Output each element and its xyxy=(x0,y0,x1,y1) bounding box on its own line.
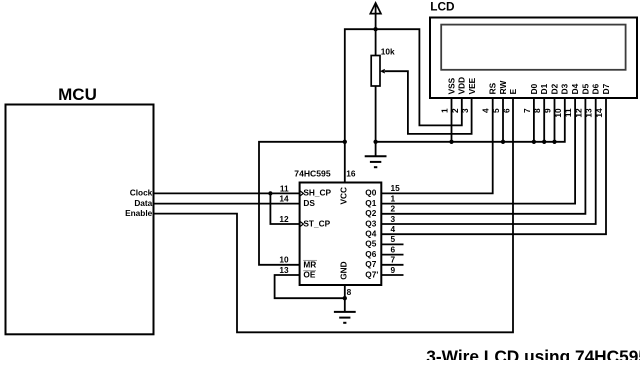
svg-text:D0: D0 xyxy=(529,83,539,94)
svg-text:RS: RS xyxy=(488,82,498,94)
svg-text:Q7: Q7 xyxy=(365,259,376,269)
op 74HC595 U1 box xyxy=(300,183,382,286)
svg-text:D5: D5 xyxy=(580,83,590,94)
svg-text:6: 6 xyxy=(501,108,511,113)
wire Q2 to D5 xyxy=(381,98,585,214)
svg-text:3-Wire LCD using 74HC595: 3-Wire LCD using 74HC595 xyxy=(426,347,640,361)
svg-text:2: 2 xyxy=(450,108,460,113)
svg-text:10k: 10k xyxy=(381,47,395,57)
svg-text:8: 8 xyxy=(532,108,542,113)
wire clock branch to ST_CP xyxy=(270,193,299,224)
wire OE to GND xyxy=(275,275,345,298)
wiper arrowhead xyxy=(380,69,385,74)
svg-text:3: 3 xyxy=(460,108,470,113)
svg-text:D3: D3 xyxy=(560,83,570,94)
svg-text:E: E xyxy=(508,88,518,94)
svg-text:10: 10 xyxy=(279,255,289,265)
junction D2 xyxy=(552,140,556,144)
svg-text:5: 5 xyxy=(391,234,396,244)
svg-text:VDD: VDD xyxy=(457,77,467,95)
svg-text:Q6: Q6 xyxy=(365,249,376,259)
svg-text:D2: D2 xyxy=(549,83,559,94)
svg-text:6: 6 xyxy=(391,244,396,254)
svg-text:5: 5 xyxy=(491,108,501,113)
svg-text:4: 4 xyxy=(481,108,491,113)
svg-text:RW: RW xyxy=(498,81,508,95)
svg-text:D1: D1 xyxy=(539,83,549,94)
svg-text:8: 8 xyxy=(347,287,352,297)
svg-text:MCU: MCU xyxy=(58,85,97,104)
svg-text:4: 4 xyxy=(391,224,396,234)
svg-text:1: 1 xyxy=(440,108,450,113)
svg-text:Data: Data xyxy=(134,198,152,208)
svg-text:9: 9 xyxy=(543,108,553,113)
wire Q5 stub xyxy=(381,243,403,245)
wire wiper to VEE xyxy=(385,71,472,134)
svg-text:14: 14 xyxy=(279,193,289,203)
junction RW xyxy=(501,140,505,144)
svg-text:LCD: LCD xyxy=(430,0,455,14)
svg-text:Q0: Q0 xyxy=(365,188,376,198)
junction VSS xyxy=(449,140,453,144)
svg-text:SH_CP: SH_CP xyxy=(303,188,331,198)
svg-text:15: 15 xyxy=(391,183,401,193)
svg-text:11: 11 xyxy=(280,183,289,193)
svg-text:Q4: Q4 xyxy=(365,229,376,239)
svg-text:10: 10 xyxy=(553,108,563,118)
wire D2 pin9 xyxy=(554,98,556,142)
wire VSS pin1 xyxy=(451,98,453,142)
wire Q7S stub xyxy=(381,274,403,276)
junction OE gnd xyxy=(343,296,347,300)
LCD box xyxy=(430,18,637,99)
wire pot bottom to ground xyxy=(375,86,377,156)
svg-text:Q7': Q7' xyxy=(365,269,378,279)
svg-text:D6: D6 xyxy=(591,83,601,94)
wire Data xyxy=(154,203,300,205)
svg-text:ST_CP: ST_CP xyxy=(303,218,330,228)
junction power arrow xyxy=(373,27,377,31)
svg-text:GND: GND xyxy=(339,261,349,279)
svg-text:VEE: VEE xyxy=(467,77,477,94)
svg-text:DS: DS xyxy=(303,198,315,208)
junction clock branch xyxy=(268,191,272,195)
ground symbol lower xyxy=(334,312,356,323)
svg-text:9: 9 xyxy=(391,265,396,275)
svg-text:Clock: Clock xyxy=(130,188,153,198)
svg-text:12: 12 xyxy=(279,214,289,224)
junction D1 xyxy=(542,140,546,144)
wire Enable to LCD E xyxy=(154,98,514,332)
svg-text:Enable: Enable xyxy=(125,208,153,218)
resistor RV1 10k body xyxy=(371,56,380,87)
wire D1 pin8 xyxy=(543,98,545,142)
wire Q6 stub xyxy=(381,254,403,256)
svg-text:D4: D4 xyxy=(570,83,580,94)
svg-text:Q2: Q2 xyxy=(365,208,376,218)
svg-text:Q1: Q1 xyxy=(365,198,376,208)
svg-text:16: 16 xyxy=(346,168,356,178)
svg-text:7: 7 xyxy=(522,108,532,113)
svg-text:Q3: Q3 xyxy=(365,218,376,228)
wire Q7 stub xyxy=(381,264,403,266)
clock triangle ST_CP xyxy=(300,221,304,226)
svg-text:VSS: VSS xyxy=(446,77,456,94)
wire power stem xyxy=(375,3,377,56)
svg-text:D7: D7 xyxy=(601,83,611,94)
svg-text:11: 11 xyxy=(563,108,573,117)
svg-text:2: 2 xyxy=(391,204,396,214)
ground symbol upper xyxy=(365,156,387,167)
junction D0 xyxy=(532,140,536,144)
svg-text:14: 14 xyxy=(594,108,604,118)
wire MR pullup to VCC rail xyxy=(259,142,345,265)
wire VCC rail pin16 VDD xyxy=(345,29,462,182)
svg-text:Q5: Q5 xyxy=(365,239,376,249)
wire Q1 to D4 xyxy=(381,98,575,204)
svg-text:VCC: VCC xyxy=(339,187,349,205)
svg-text:1: 1 xyxy=(391,193,396,203)
svg-text:13: 13 xyxy=(279,265,289,275)
wire D0 pin7 xyxy=(533,98,535,142)
svg-text:12: 12 xyxy=(573,108,583,118)
svg-text:7: 7 xyxy=(391,255,396,265)
svg-text:74HC595: 74HC595 xyxy=(294,168,331,178)
junction pot ground bus xyxy=(373,140,377,144)
svg-text:13: 13 xyxy=(584,108,594,118)
wire ground bus LCD xyxy=(376,98,565,142)
wire Q3 to D6 xyxy=(381,98,595,224)
wire Clock xyxy=(154,192,300,194)
svg-text:3: 3 xyxy=(391,214,396,224)
clock triangle SH_CP xyxy=(300,191,304,196)
wire RW pin5 xyxy=(502,98,504,142)
wire Q0 to RS xyxy=(381,98,492,193)
junction MR on VCC rail xyxy=(343,140,347,144)
LCD screen inner xyxy=(441,25,625,70)
power arrow VCC xyxy=(370,3,381,14)
MCU box xyxy=(6,105,154,335)
wire GND pin8 xyxy=(344,285,346,312)
wire Q4 to D7 xyxy=(381,98,606,234)
